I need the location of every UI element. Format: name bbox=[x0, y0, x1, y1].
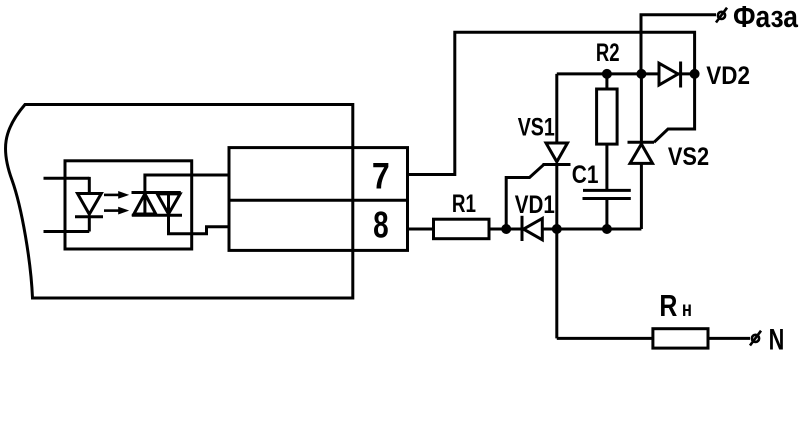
wire VS1 cathode down bbox=[555, 165, 558, 339]
VD2 cathode bar bbox=[679, 62, 682, 88]
phototriac top rail bbox=[132, 191, 181, 194]
phototriac right triangle bbox=[157, 194, 180, 214]
wire R2 to C1 bbox=[605, 144, 608, 189]
wire VD1 to VS2 anode bbox=[542, 228, 641, 231]
svg-text:VD2: VD2 bbox=[706, 62, 750, 90]
node VS1 gate junction bbox=[501, 224, 511, 234]
light arrow 1 bbox=[104, 194, 119, 197]
svg-text:N: N bbox=[769, 324, 785, 357]
node VD2 cathode junction bbox=[690, 69, 700, 79]
svg-text:8: 8 bbox=[373, 205, 389, 246]
wire Фаза terminal bbox=[641, 15, 716, 74]
node Фаза junction bbox=[636, 69, 646, 79]
wire LED cathode stub bbox=[44, 230, 90, 233]
wire C1 down bbox=[605, 199, 608, 230]
wire terminal 8 to R1 bbox=[408, 228, 434, 231]
wire VS2 anode down bbox=[640, 163, 643, 229]
thyristor VS1 anode wire bbox=[555, 74, 558, 143]
diode VD2 bbox=[659, 63, 678, 85]
resistor R2 bbox=[605, 74, 608, 89]
phototriac left triangle bbox=[134, 194, 156, 214]
phototriac bottom rail bbox=[132, 214, 182, 217]
thyristor VS1 bbox=[546, 143, 568, 162]
svg-text:VS1: VS1 bbox=[518, 113, 555, 141]
svg-text:R1: R1 bbox=[452, 190, 476, 218]
thyristor VS2 bbox=[630, 144, 653, 163]
optocoupler box U1 bbox=[65, 161, 192, 249]
svg-text:R2: R2 bbox=[596, 39, 620, 67]
LED cathode bar bbox=[75, 215, 103, 218]
svg-text:7: 7 bbox=[372, 156, 390, 197]
VS1 cathode bar bbox=[543, 163, 571, 166]
VS2 cathode bar bbox=[628, 141, 655, 144]
terminal N circle bbox=[752, 335, 759, 342]
terminal block bbox=[229, 148, 408, 251]
wire Rн to N bbox=[708, 337, 750, 340]
resistor R1 bbox=[434, 219, 490, 239]
LED diode of optocoupler bbox=[78, 194, 102, 215]
capacitor C1 bbox=[583, 189, 631, 192]
svg-text:Фаза: Фаза bbox=[733, 0, 799, 34]
wire LED anode vertical bbox=[88, 177, 91, 194]
light arrow 2 bbox=[104, 209, 119, 212]
terminal Фаза circle bbox=[718, 12, 725, 19]
wire VS1 gate bbox=[506, 165, 543, 229]
node C1 bottom junction bbox=[602, 224, 612, 234]
svg-text:VD1: VD1 bbox=[515, 191, 555, 219]
wire phototriac MT1 lead with jog bbox=[169, 193, 230, 234]
wire R1 to VD1 bbox=[489, 228, 523, 231]
svg-text:R: R bbox=[659, 288, 677, 323]
node R2 top junction bbox=[602, 69, 612, 79]
diode VD1 bbox=[524, 219, 543, 240]
wire terminal 7 to VD2 cathode bbox=[408, 32, 695, 174]
wire LED cathode vertical bbox=[88, 217, 91, 232]
wire phototriac MT2 lead bbox=[145, 175, 229, 215]
svg-text:C1: C1 bbox=[572, 161, 599, 189]
VD1 cathode bar bbox=[521, 216, 524, 241]
wire LED anode stub bbox=[44, 177, 90, 180]
resistor Rн bbox=[653, 329, 708, 348]
svg-text:н: н bbox=[682, 298, 692, 321]
wire top net y74 bbox=[557, 72, 659, 75]
terminal block divider bbox=[229, 199, 408, 202]
wire VS2 gate bbox=[654, 74, 695, 142]
wire load branch to Rн bbox=[557, 337, 653, 340]
svg-text:VS2: VS2 bbox=[668, 143, 709, 171]
thyristor VS2 cathode wire bbox=[640, 74, 643, 142]
node VS1 cathode junction bbox=[552, 224, 562, 234]
device box (controller) with wavy left edge bbox=[5, 105, 352, 299]
